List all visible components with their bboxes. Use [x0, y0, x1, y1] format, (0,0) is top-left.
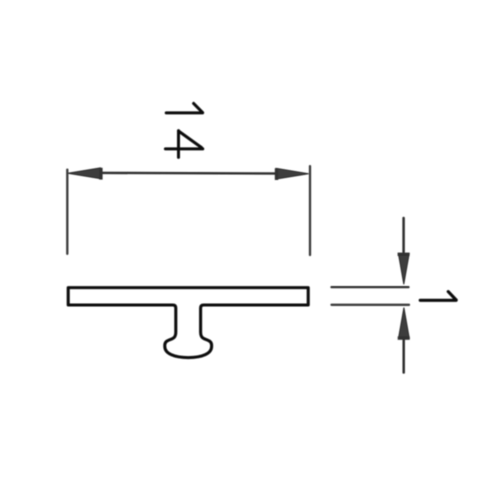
thickness arrow up — [398, 308, 410, 373]
label 14, digit 4 — [165, 131, 202, 158]
thickness extension tick top — [332, 286, 409, 288]
arrowhead left (points left) — [68, 168, 103, 180]
dimension line 14 (horizontal) — [78, 172, 296, 175]
extension line right — [309, 166, 311, 255]
extension line left — [66, 170, 68, 254]
T-profile outline — [68, 288, 308, 358]
arrowhead right (points right) — [275, 168, 309, 180]
label 14 (rotated 90deg CW), digit 1 — [166, 103, 202, 113]
thickness arrow down — [398, 218, 410, 284]
thickness extension tick bottom — [332, 304, 410, 306]
label 1 (rotated 90deg CW) — [420, 292, 456, 301]
